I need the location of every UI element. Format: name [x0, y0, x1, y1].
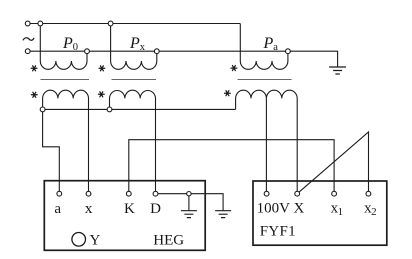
transformer P0 secondary winding, down to terminal x: [43, 90, 89, 194]
svg-text:P: P: [62, 35, 73, 52]
node bottom rail Pa: [286, 49, 291, 54]
polarity mark Px secondary: [98, 92, 104, 97]
svg-text:X: X: [293, 200, 304, 216]
polarity mark Pa primary: [231, 66, 237, 71]
node D ground link: [187, 192, 191, 196]
svg-text:D: D: [150, 201, 161, 217]
wire bottom rail to ground G1: [30, 51, 338, 67]
transformer Px primary winding: [111, 24, 157, 70]
ground outside HEG: [215, 211, 231, 218]
node bottom rail P0: [85, 49, 90, 54]
wire top rail: [30, 23, 240, 25]
node secondary rail Px: [107, 107, 112, 112]
wire junction to terminal a: [43, 109, 60, 193]
svg-text:Y: Y: [90, 233, 101, 249]
wire terminal D to grounds: [156, 194, 224, 211]
svg-text:K: K: [124, 201, 135, 217]
terminal x2: [366, 191, 371, 196]
terminal 100V: [264, 191, 269, 196]
terminal x: [86, 191, 91, 196]
svg-text:2: 2: [371, 206, 377, 218]
wire diagonal X to x2: [297, 132, 368, 194]
svg-text:100V: 100V: [257, 200, 291, 216]
svg-text:a: a: [273, 42, 278, 53]
ground inside HEG: [181, 211, 197, 218]
indicator Y circle: [72, 233, 86, 247]
terminal D: [153, 191, 158, 196]
wire secondary rail: [43, 108, 236, 110]
core of transformer Pa: [238, 79, 292, 81]
label x1: [331, 200, 344, 218]
node top rail P0: [38, 21, 43, 26]
label P0: [62, 35, 78, 53]
svg-text:HEG: HEG: [153, 233, 184, 249]
ground G1: [329, 67, 346, 74]
terminal K: [126, 191, 131, 196]
node top rail Px: [108, 21, 113, 26]
svg-text:x: x: [85, 201, 93, 217]
svg-text:x: x: [140, 42, 146, 53]
node bottom rail Px: [154, 49, 159, 54]
transformer Pa secondary winding, down to terminal X: [236, 90, 298, 194]
polarity mark P0 secondary: [31, 92, 37, 97]
wire Pa secondary 100V tap: [265, 98, 267, 193]
transformer P0 primary winding: [40, 24, 87, 70]
wire ground stub inside HEG: [188, 194, 190, 211]
box HEG tester: [44, 181, 205, 251]
terminal AC bottom: [25, 49, 30, 54]
core of transformer Px: [112, 79, 157, 81]
label Px: [129, 35, 146, 53]
AC source symbol ~: [23, 38, 34, 41]
svg-text:P: P: [263, 35, 274, 52]
terminal X: [295, 191, 300, 196]
svg-text:FYF1: FYF1: [260, 223, 296, 239]
terminal x1: [332, 191, 337, 196]
svg-text:1: 1: [338, 206, 344, 218]
box FYF1: [253, 181, 387, 245]
polarity mark P0 primary: [31, 66, 37, 71]
transformer Pa primary winding: [240, 24, 288, 70]
polarity mark Px primary: [99, 66, 105, 71]
svg-text:a: a: [54, 201, 61, 217]
node secondary rail P0: [40, 107, 45, 112]
terminal AC top: [25, 21, 30, 26]
label x2: [364, 200, 377, 218]
core of transformer P0: [41, 79, 90, 81]
transformer Px secondary winding, down to terminal D: [110, 90, 156, 193]
svg-text:0: 0: [73, 42, 78, 53]
terminal a: [57, 191, 62, 196]
polarity mark Pa secondary: [225, 91, 231, 96]
label Pa: [263, 35, 279, 53]
svg-text:P: P: [129, 35, 140, 52]
wire terminal K to terminal x1: [129, 140, 334, 194]
